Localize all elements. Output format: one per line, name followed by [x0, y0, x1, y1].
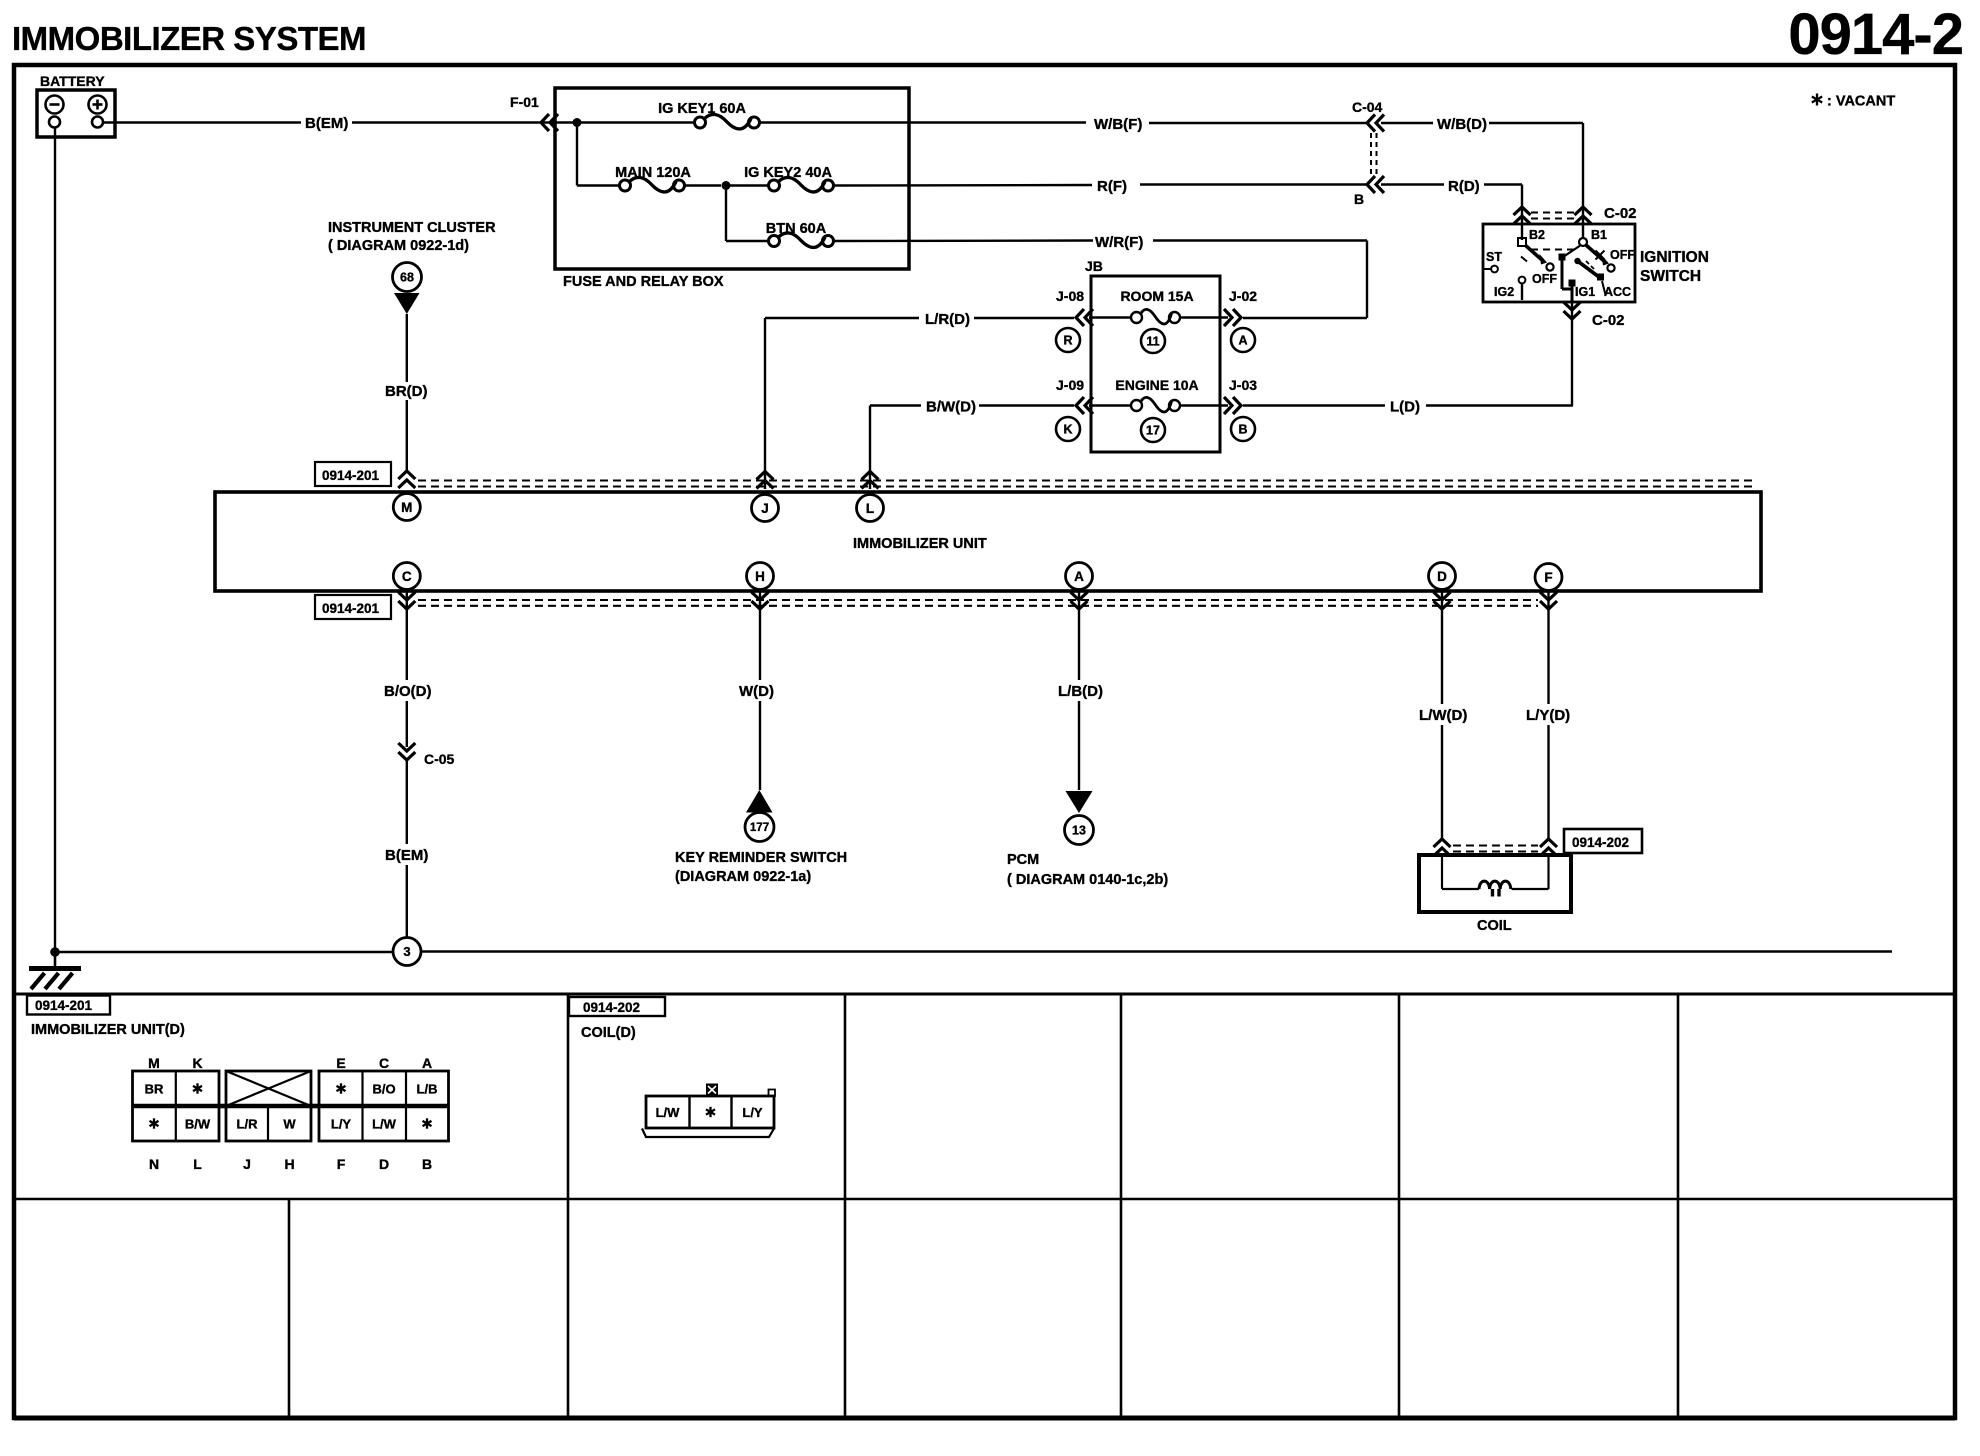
- svg-text:W/B(D): W/B(D): [1437, 116, 1487, 133]
- pin B circle: [1231, 417, 1255, 441]
- coil box: [1419, 855, 1571, 912]
- svg-text:0914-201: 0914-201: [35, 998, 93, 1013]
- wire W/B(D) down to ignition switch B1: [1582, 123, 1584, 240]
- svg-text:A: A: [1074, 569, 1084, 584]
- coil connector pin grid: [646, 1096, 774, 1128]
- svg-text:H: H: [284, 1156, 294, 1172]
- svg-text:C: C: [379, 1055, 389, 1071]
- wire W(D): [759, 591, 761, 680]
- wire W/B(D): [1381, 122, 1433, 124]
- wire L/B(D): [1078, 591, 1080, 680]
- ignition switch internal dashed line: [1531, 249, 1576, 251]
- ignition switch terminal B2: [1518, 238, 1526, 246]
- svg-text:B(EM): B(EM): [385, 847, 428, 864]
- wire L/Y(D): [1547, 591, 1549, 704]
- wire junction down to BTN row: [725, 186, 727, 242]
- junction block JB box: [1091, 276, 1220, 452]
- arrow to PCM: [1066, 791, 1093, 813]
- fuse IG KEY2 40A: [730, 184, 768, 186]
- svg-text:R(D): R(D): [1448, 178, 1480, 195]
- svg-text:3: 3: [403, 944, 410, 959]
- svg-text:C-04: C-04: [1352, 99, 1383, 115]
- svg-text:BR(D): BR(D): [385, 383, 428, 400]
- svg-text:IG KEY1 60A: IG KEY1 60A: [658, 101, 746, 117]
- battery negative terminal: [46, 96, 64, 114]
- fuse and relay box: [555, 88, 909, 269]
- svg-text:E: E: [336, 1055, 345, 1071]
- connector C-04 chevron on R wire: [1367, 176, 1384, 193]
- pin K circle: [1056, 417, 1080, 441]
- connector C-02 below ignition switch: [1571, 302, 1573, 406]
- svg-text:BATTERY: BATTERY: [40, 73, 105, 89]
- battery: [37, 90, 115, 137]
- ignition switch B2 arm to OFF: [1525, 245, 1542, 260]
- svg-text:( DIAGRAM 0140-1c,2b): ( DIAGRAM 0140-1c,2b): [1007, 872, 1168, 888]
- svg-text:R(F): R(F): [1097, 178, 1127, 195]
- svg-text:: VACANT: : VACANT: [1827, 94, 1895, 110]
- ignition switch terminal IG2: [1519, 277, 1526, 284]
- wire B/O(D): [406, 591, 408, 680]
- terminal A: [1066, 563, 1093, 590]
- terminal D: [1429, 563, 1456, 590]
- connector chevron C: [398, 592, 415, 609]
- ignition switch terminal B1: [1579, 238, 1587, 246]
- terminal M: [393, 494, 420, 521]
- ignition switch dashes near B1: [1586, 261, 1589, 264]
- svg-text:L: L: [193, 1156, 202, 1172]
- pin 17 circle: [1141, 418, 1165, 442]
- svg-text:K: K: [1063, 423, 1072, 437]
- coil wires inside: [1441, 855, 1443, 889]
- svg-text:W/R(F): W/R(F): [1095, 234, 1143, 251]
- svg-text:IG2: IG2: [1494, 285, 1514, 299]
- svg-text:B: B: [1238, 423, 1247, 437]
- ignition switch B1 arm to OFF: [1586, 245, 1604, 261]
- svg-text:K: K: [192, 1055, 202, 1071]
- wire L/W(D): [1441, 591, 1443, 704]
- node junction MAIN to IG KEY2 / BTN: [722, 181, 731, 190]
- svg-text:B/W(D): B/W(D): [926, 399, 976, 416]
- svg-text:FUSE AND RELAY BOX: FUSE AND RELAY BOX: [563, 274, 724, 290]
- ignition switch terminal ST: [1483, 268, 1491, 270]
- svg-text:ROOM 15A: ROOM 15A: [1120, 288, 1193, 304]
- wire W/B(F) to C-04: [1149, 122, 1366, 124]
- wire L(D) from J-03 to ignition IG1: [1243, 404, 1385, 406]
- svg-text:W: W: [283, 1117, 296, 1132]
- svg-text:68: 68: [400, 271, 414, 285]
- svg-text:D: D: [379, 1156, 389, 1172]
- svg-text:L(D): L(D): [1390, 399, 1420, 416]
- table top line: [14, 993, 1955, 996]
- connector C-02 chevrons above ignition switch: [1514, 207, 1531, 224]
- wire B(EM) battery to fuse box: [103, 121, 301, 123]
- ground node 3: [393, 938, 421, 966]
- svg-text:IMMOBILIZER UNIT(D): IMMOBILIZER UNIT(D): [31, 1022, 185, 1038]
- key reminder switch connector 177: [745, 813, 774, 842]
- svg-text:C-02: C-02: [1592, 312, 1625, 329]
- label 0914-202 box: [1564, 829, 1642, 853]
- svg-text:N: N: [149, 1156, 159, 1172]
- svg-text:OFF: OFF: [1532, 272, 1557, 286]
- fuse MAIN 120A: [577, 184, 619, 186]
- wire R(D) down to ignition switch B2: [1521, 185, 1523, 241]
- instrument cluster connector 68: [393, 263, 422, 292]
- ignition switch position dash tick: [1521, 257, 1527, 262]
- svg-text:BR: BR: [145, 1082, 164, 1097]
- fuse BTN 60A: [726, 240, 768, 242]
- svg-text:F: F: [1544, 570, 1552, 585]
- svg-text:L/Y: L/Y: [331, 1117, 352, 1132]
- svg-text:L/W(D): L/W(D): [1419, 707, 1467, 724]
- label 0914-201 bottom: [315, 595, 391, 619]
- connector 0914-202 chevrons: [1434, 839, 1451, 856]
- svg-text:D: D: [1437, 569, 1447, 584]
- svg-text:J-09: J-09: [1056, 377, 1084, 393]
- coil connector index mark: [706, 1084, 718, 1096]
- svg-text:17: 17: [1146, 424, 1160, 438]
- connector C-05: [398, 743, 415, 760]
- svg-text:J-03: J-03: [1229, 377, 1257, 393]
- svg-text:0914-202: 0914-202: [583, 1000, 640, 1015]
- svg-text:0914-201: 0914-201: [322, 468, 380, 483]
- node junction at fuse box feed: [573, 118, 582, 127]
- wire R(D): [1381, 183, 1444, 185]
- svg-text:ST: ST: [1486, 250, 1502, 264]
- svg-text:JB: JB: [1085, 258, 1103, 274]
- wire: [352, 121, 694, 123]
- svg-text:( DIAGRAM 0922-1d): ( DIAGRAM 0922-1d): [328, 238, 469, 254]
- ignition switch box: [1483, 224, 1635, 302]
- svg-text:IMMOBILIZER UNIT: IMMOBILIZER UNIT: [853, 536, 987, 552]
- svg-text:177: 177: [750, 822, 769, 834]
- connector dashed lines top: [418, 479, 1753, 481]
- svg-text:C-02: C-02: [1604, 205, 1637, 222]
- connector chevron H: [752, 592, 769, 609]
- terminal C: [393, 563, 420, 590]
- svg-text:11: 11: [1146, 335, 1159, 349]
- battery positive terminal: [89, 96, 107, 114]
- svg-text:SWITCH: SWITCH: [1640, 268, 1701, 285]
- terminal H: [747, 563, 774, 590]
- svg-text:OFF: OFF: [1610, 248, 1635, 262]
- svg-text:PCM: PCM: [1007, 852, 1039, 868]
- arrow from instrument cluster: [394, 293, 420, 314]
- connector chevron L: [862, 472, 879, 489]
- wire R(F) to C-04: [1140, 183, 1366, 185]
- connector chevron J-03: [1224, 397, 1241, 414]
- svg-text:B2: B2: [1529, 228, 1545, 242]
- label 0914-201 cell: [27, 996, 110, 1015]
- svg-text:B1: B1: [1591, 228, 1607, 242]
- connector chevron F: [1540, 592, 1557, 609]
- svg-text:L/R: L/R: [237, 1117, 259, 1132]
- svg-text:13: 13: [1072, 824, 1086, 838]
- svg-text:COIL(D): COIL(D): [581, 1025, 636, 1041]
- svg-text:J: J: [761, 501, 769, 516]
- coil inductor symbol: [1479, 881, 1511, 889]
- svg-text:L/R(D): L/R(D): [925, 311, 970, 328]
- svg-text:A: A: [422, 1055, 432, 1071]
- svg-text:L/Y: L/Y: [742, 1105, 763, 1120]
- wire L/R(D) from J-08 to immobilizer J: [974, 317, 1074, 319]
- connector chevron D: [1434, 592, 1451, 609]
- wire junction down to MAIN fuse row: [576, 123, 578, 186]
- svg-text:C: C: [402, 569, 412, 584]
- wire B/W(D) from J-09 to immobilizer L: [979, 404, 1074, 406]
- table row divider: [14, 1198, 1955, 1201]
- svg-text:IMMOBILIZER SYSTEM: IMMOBILIZER SYSTEM: [12, 20, 366, 57]
- connector C-04 dashed link: [1370, 133, 1372, 176]
- ignition switch B1 arm to ACC: [1574, 258, 1580, 264]
- wire B(EM) lower: [406, 760, 408, 844]
- ground junction dot: [50, 947, 60, 957]
- immobilizer unit box: [215, 492, 1761, 591]
- svg-text:B/O: B/O: [372, 1082, 395, 1097]
- table vertical divider second row: [288, 1199, 291, 1418]
- table bottom line: [14, 1416, 1955, 1421]
- ignition switch B1 arm to IG1: [1563, 245, 1581, 257]
- svg-text:F: F: [337, 1156, 346, 1172]
- svg-text:A: A: [1238, 334, 1247, 348]
- connector chevron M: [398, 471, 415, 488]
- svg-text:L: L: [866, 501, 874, 516]
- wire IG KEY2 output R(F): [833, 184, 1092, 187]
- ground wire rail: [55, 951, 393, 954]
- wire battery negative to ground: [54, 128, 56, 953]
- terminal L: [857, 495, 884, 522]
- coil connector tray: [642, 1129, 774, 1138]
- pin 11 circle: [1141, 329, 1165, 353]
- svg-text:W/B(F): W/B(F): [1094, 116, 1142, 133]
- svg-text:L/Y(D): L/Y(D): [1526, 707, 1570, 724]
- svg-text:0914-201: 0914-201: [322, 601, 380, 616]
- PCM connector 13: [1065, 816, 1094, 845]
- connector chevron J-09: [1076, 397, 1093, 414]
- pin R circle: [1056, 328, 1080, 352]
- pin A circle: [1231, 328, 1255, 352]
- svg-text:M: M: [148, 1055, 160, 1071]
- connector chevron A: [1071, 592, 1088, 609]
- svg-text:L/B: L/B: [417, 1082, 438, 1097]
- label 0914-201 top: [315, 462, 391, 486]
- label 0914-202 cell: [569, 997, 665, 1016]
- svg-text:B(EM): B(EM): [305, 115, 348, 132]
- svg-text:B: B: [422, 1156, 432, 1172]
- connector chevron J: [757, 472, 774, 489]
- svg-text:0914-2: 0914-2: [1788, 2, 1963, 67]
- svg-text:W(D): W(D): [739, 683, 774, 700]
- svg-text:B: B: [1354, 191, 1364, 207]
- svg-text:L/W: L/W: [372, 1117, 397, 1132]
- svg-text:IGNITION: IGNITION: [1640, 249, 1709, 266]
- svg-text:INSTRUMENT CLUSTER: INSTRUMENT CLUSTER: [328, 220, 496, 236]
- svg-text:B/O(D): B/O(D): [384, 683, 432, 700]
- battery lower posts: [49, 117, 60, 128]
- svg-text:ENGINE 10A: ENGINE 10A: [1115, 377, 1198, 393]
- svg-text:B/W: B/W: [185, 1117, 211, 1132]
- wire BTN output W/R(F): [833, 239, 1093, 242]
- connector chevron J-02: [1224, 309, 1241, 326]
- wire W/R(F) to JB J-02: [1153, 239, 1367, 241]
- connector chevron J-08: [1076, 309, 1093, 326]
- svg-text:ACC: ACC: [1604, 285, 1631, 299]
- connector F-01: [541, 114, 558, 131]
- terminal J: [752, 495, 779, 522]
- terminal F: [1535, 564, 1562, 591]
- wire IG KEY1 output: [759, 121, 1086, 123]
- svg-text:L/W: L/W: [656, 1105, 681, 1120]
- svg-text:R: R: [1063, 334, 1072, 348]
- connector C-04 chevron on W/B wire: [1367, 115, 1384, 132]
- table vertical dividers: [567, 994, 570, 1418]
- arrow to key reminder switch: [746, 790, 773, 813]
- chassis ground symbol: [54, 952, 57, 968]
- legend vacant: [1812, 94, 1822, 106]
- ignition switch position cross mark: [1596, 251, 1605, 260]
- svg-text:C-05: C-05: [424, 751, 455, 767]
- svg-text:J: J: [243, 1156, 251, 1172]
- svg-text:(DIAGRAM 0922-1a): (DIAGRAM 0922-1a): [675, 869, 811, 885]
- svg-text:M: M: [401, 500, 412, 515]
- svg-text:F-01: F-01: [510, 94, 539, 110]
- svg-text:IG1: IG1: [1575, 285, 1595, 299]
- wire MAIN output: [684, 184, 721, 186]
- svg-text:J-08: J-08: [1056, 288, 1084, 304]
- connector dashed lines bottom: [418, 599, 1538, 601]
- svg-text:KEY REMINDER SWITCH: KEY REMINDER SWITCH: [675, 850, 847, 866]
- svg-text:0914-202: 0914-202: [1572, 835, 1629, 850]
- svg-text:J-02: J-02: [1229, 288, 1257, 304]
- svg-text:COIL: COIL: [1477, 918, 1512, 934]
- wire BR(D): [406, 314, 408, 382]
- svg-text:L/B(D): L/B(D): [1058, 683, 1103, 700]
- svg-text:H: H: [755, 569, 765, 584]
